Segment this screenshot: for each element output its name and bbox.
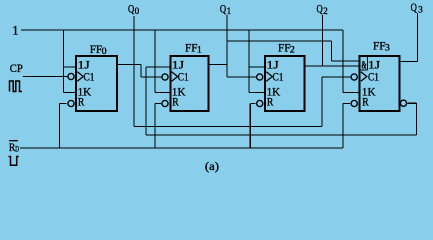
wire: FF1 K feed from rail (155, 30, 170, 93)
svg-text:0: 0 (102, 47, 107, 57)
svg-text:&: & (361, 60, 366, 72)
wire: FF2 J/K feed from rail (249, 30, 265, 93)
svg-text:C1: C1 (368, 70, 379, 83)
FF3 Q-bar output bubble (400, 100, 406, 106)
wire: FF0 J/K feed from rail (64, 30, 77, 93)
svg-text:1J: 1J (78, 57, 90, 71)
svg-text:R: R (267, 96, 274, 109)
wire: Q0 net label line (133, 16, 135, 127)
wire: RD-bar reset rail (20, 147, 343, 149)
FF1 dynamic clock wedge (172, 72, 178, 82)
FF2 clock bubble (257, 74, 263, 80)
wire: FF1 clock feed riser (140, 65, 142, 78)
flip-flop FF2 box (265, 56, 305, 111)
FF0 clock bubble (68, 73, 74, 79)
svg-text:C1: C1 (178, 70, 189, 83)
wire: CP input line (23, 76, 68, 78)
svg-text:1J: 1J (172, 57, 184, 71)
wire: FF0 R connection (60, 104, 67, 149)
svg-text:3: 3 (418, 5, 423, 15)
FF3 dynamic clock wedge (361, 72, 367, 82)
flip-flop FF0 box (76, 56, 117, 111)
FF3 clock bubble (351, 74, 357, 80)
flip-flop FF1 box (170, 56, 208, 111)
wire: FF3 Q output stub (400, 61, 418, 63)
flip-flop FF3 box (360, 56, 400, 111)
wire: Q3-bar feedback to FF1 J (146, 67, 417, 135)
wire: FF2 R connection (250, 104, 255, 149)
wire: Q2 label line (322, 15, 324, 66)
FF3 reset bubble (351, 100, 357, 106)
wire: FF3 K feed from rail (343, 30, 360, 93)
wire: FF2 Q output stub into FF3 AND input b (305, 65, 360, 67)
svg-text:1: 1 (197, 46, 202, 56)
svg-text:Q: Q (317, 3, 324, 16)
svg-text:1: 1 (12, 23, 19, 38)
wire: Q1 to FF3 AND input a (227, 41, 360, 61)
svg-text:C1: C1 (273, 70, 284, 83)
wire: FF2 clock stub (227, 76, 256, 78)
svg-text:1: 1 (227, 6, 232, 16)
svg-text:CP: CP (10, 62, 23, 75)
svg-text:2: 2 (290, 46, 295, 56)
svg-text:R: R (78, 96, 85, 109)
wire: Q1 label line (226, 15, 228, 77)
svg-text:0: 0 (135, 6, 140, 16)
FF1 clock bubble (162, 74, 168, 80)
svg-text:Q: Q (220, 3, 227, 16)
wire: FF1 R connection (155, 104, 161, 149)
wire: FF3 R connection (343, 104, 350, 149)
svg-text:1J: 1J (368, 57, 380, 71)
wire: FF1 Q output stub (208, 64, 228, 66)
FF2 reset bubble (257, 100, 263, 106)
svg-text:R: R (172, 96, 179, 109)
svg-text:D: D (15, 145, 19, 153)
wire: Q0 to FF3 clock feedback run (134, 77, 351, 127)
wire: FF1 clock stub (141, 76, 162, 78)
svg-text:R: R (362, 96, 369, 109)
FF3 embedded AND-gate cell divider (361, 57, 368, 70)
svg-text:(a): (a) (205, 159, 219, 173)
svg-text:Q: Q (411, 2, 418, 15)
FF1 reset bubble (162, 100, 168, 106)
FF0 reset bubble (68, 100, 74, 106)
svg-text:C1: C1 (84, 70, 95, 83)
RD-bar waveform symbol (negative pulse) (9, 157, 19, 166)
wire: Q3 label line (417, 13, 419, 62)
svg-text:1J: 1J (267, 57, 279, 71)
svg-text:2: 2 (323, 6, 328, 16)
overline of RD-bar (9, 140, 18, 142)
CP waveform symbol (two positive pulses) (10, 81, 23, 92)
wire: logic-1 rail (21, 29, 343, 31)
wire: FF0 Q output stub (117, 64, 142, 66)
svg-text:3: 3 (385, 44, 390, 54)
FF0 dynamic clock wedge (77, 72, 83, 82)
FF2 dynamic clock wedge (266, 72, 272, 82)
